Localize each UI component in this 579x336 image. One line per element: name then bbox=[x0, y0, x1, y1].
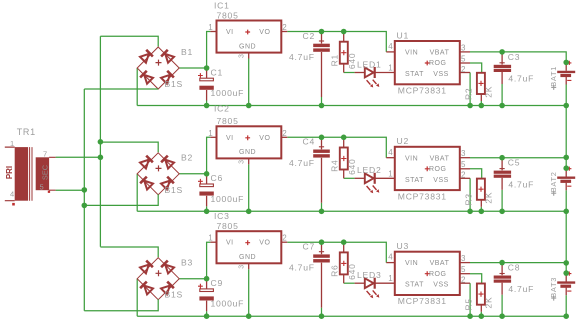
svg-text:C8: C8 bbox=[508, 263, 521, 273]
svg-text:BAT3: BAT3 bbox=[549, 277, 558, 298]
svg-text:1: 1 bbox=[10, 139, 15, 148]
svg-text:U1: U1 bbox=[397, 31, 410, 41]
svg-text:4: 4 bbox=[10, 190, 15, 199]
svg-text:C9: C9 bbox=[211, 278, 224, 288]
svg-text:IC1: IC1 bbox=[214, 1, 230, 11]
svg-text:C7: C7 bbox=[303, 242, 316, 252]
svg-text:LED3: LED3 bbox=[357, 270, 382, 280]
svg-text:PRI: PRI bbox=[5, 166, 14, 179]
svg-text:R4: R4 bbox=[330, 160, 340, 172]
svg-text:B1: B1 bbox=[181, 47, 193, 57]
svg-text:R6: R6 bbox=[330, 265, 340, 277]
svg-text:LED2: LED2 bbox=[357, 165, 382, 175]
svg-text:B3: B3 bbox=[181, 258, 193, 268]
svg-text:BAT1: BAT1 bbox=[549, 66, 558, 87]
svg-text:R1: R1 bbox=[330, 54, 340, 66]
svg-text:SEC: SEC bbox=[40, 164, 49, 180]
svg-text:C6: C6 bbox=[211, 173, 224, 183]
svg-text:C3: C3 bbox=[508, 52, 521, 62]
svg-text:U3: U3 bbox=[397, 241, 410, 251]
svg-text:C5: C5 bbox=[508, 158, 521, 168]
svg-text:7: 7 bbox=[43, 150, 48, 159]
svg-text:IC2: IC2 bbox=[214, 104, 230, 114]
svg-text:LED1: LED1 bbox=[357, 60, 382, 70]
svg-text:IC3: IC3 bbox=[214, 211, 230, 221]
svg-text:C4: C4 bbox=[303, 137, 316, 147]
svg-text:TR1: TR1 bbox=[17, 127, 36, 137]
svg-text:C2: C2 bbox=[303, 31, 316, 41]
svg-text:BAT2: BAT2 bbox=[549, 171, 558, 192]
svg-text:C1: C1 bbox=[211, 68, 224, 78]
svg-text:R5: R5 bbox=[464, 298, 474, 310]
svg-text:R3: R3 bbox=[464, 193, 474, 205]
svg-text:5: 5 bbox=[40, 183, 45, 192]
svg-text:R2: R2 bbox=[464, 88, 474, 100]
svg-text:B2: B2 bbox=[181, 153, 193, 163]
svg-text:U2: U2 bbox=[397, 136, 410, 146]
